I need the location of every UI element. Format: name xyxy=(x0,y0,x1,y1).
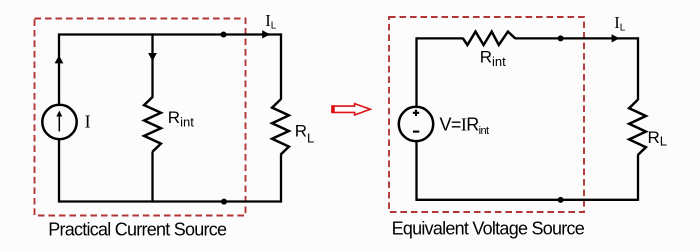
current direction arrow (down, middle branch) xyxy=(148,53,157,61)
wire top bus left segment (right circuit) xyxy=(417,37,464,39)
wire bottom bus (right circuit) xyxy=(417,199,639,201)
voltage source V xyxy=(399,107,433,141)
wire right branch upper (left circuit) xyxy=(280,33,282,100)
current direction arrow (up, left branch) xyxy=(55,55,64,63)
svg-text:I: I xyxy=(85,112,91,132)
wire middle branch lower (left circuit) xyxy=(151,152,153,203)
wire left branch upper (left circuit) xyxy=(58,33,60,105)
current source I xyxy=(42,105,76,139)
wire right branch lower (right circuit) xyxy=(637,155,639,201)
wire left branch upper (right circuit) xyxy=(415,37,417,107)
resistor R_int (series, right circuit) xyxy=(463,32,515,45)
wire bottom bus (left circuit) xyxy=(59,200,281,202)
wire left branch lower (right circuit) xyxy=(415,141,417,201)
equivalent voltage source boundary xyxy=(389,17,584,212)
practical current source boundary xyxy=(35,19,246,216)
current arrow I_L (left circuit) xyxy=(262,30,270,38)
junction dot top (right circuit) xyxy=(558,35,564,41)
junction dot top (left circuit) xyxy=(221,32,227,38)
equivalence arrow xyxy=(331,104,370,115)
wire right branch lower (left circuit) xyxy=(280,155,282,203)
resistor R_int (shunt, left circuit) xyxy=(144,97,161,152)
resistor R_L (left circuit) xyxy=(272,100,289,155)
wire top bus right segment (right circuit) xyxy=(515,37,638,39)
resistor R_L (right circuit) xyxy=(629,100,646,155)
current arrow I_L (right circuit) xyxy=(612,34,620,42)
wire left branch lower (left circuit) xyxy=(58,139,60,202)
svg-text:Practical Current Source: Practical Current Source xyxy=(48,219,227,239)
wire top bus (left circuit) xyxy=(59,33,281,35)
junction dot bottom (right circuit) xyxy=(558,197,564,203)
svg-text:Equivalent Voltage Source: Equivalent Voltage Source xyxy=(392,219,585,239)
wire right branch upper (right circuit) xyxy=(637,37,639,100)
wire middle branch upper (left circuit) xyxy=(151,33,153,97)
junction dot bottom (left circuit) xyxy=(221,199,227,205)
